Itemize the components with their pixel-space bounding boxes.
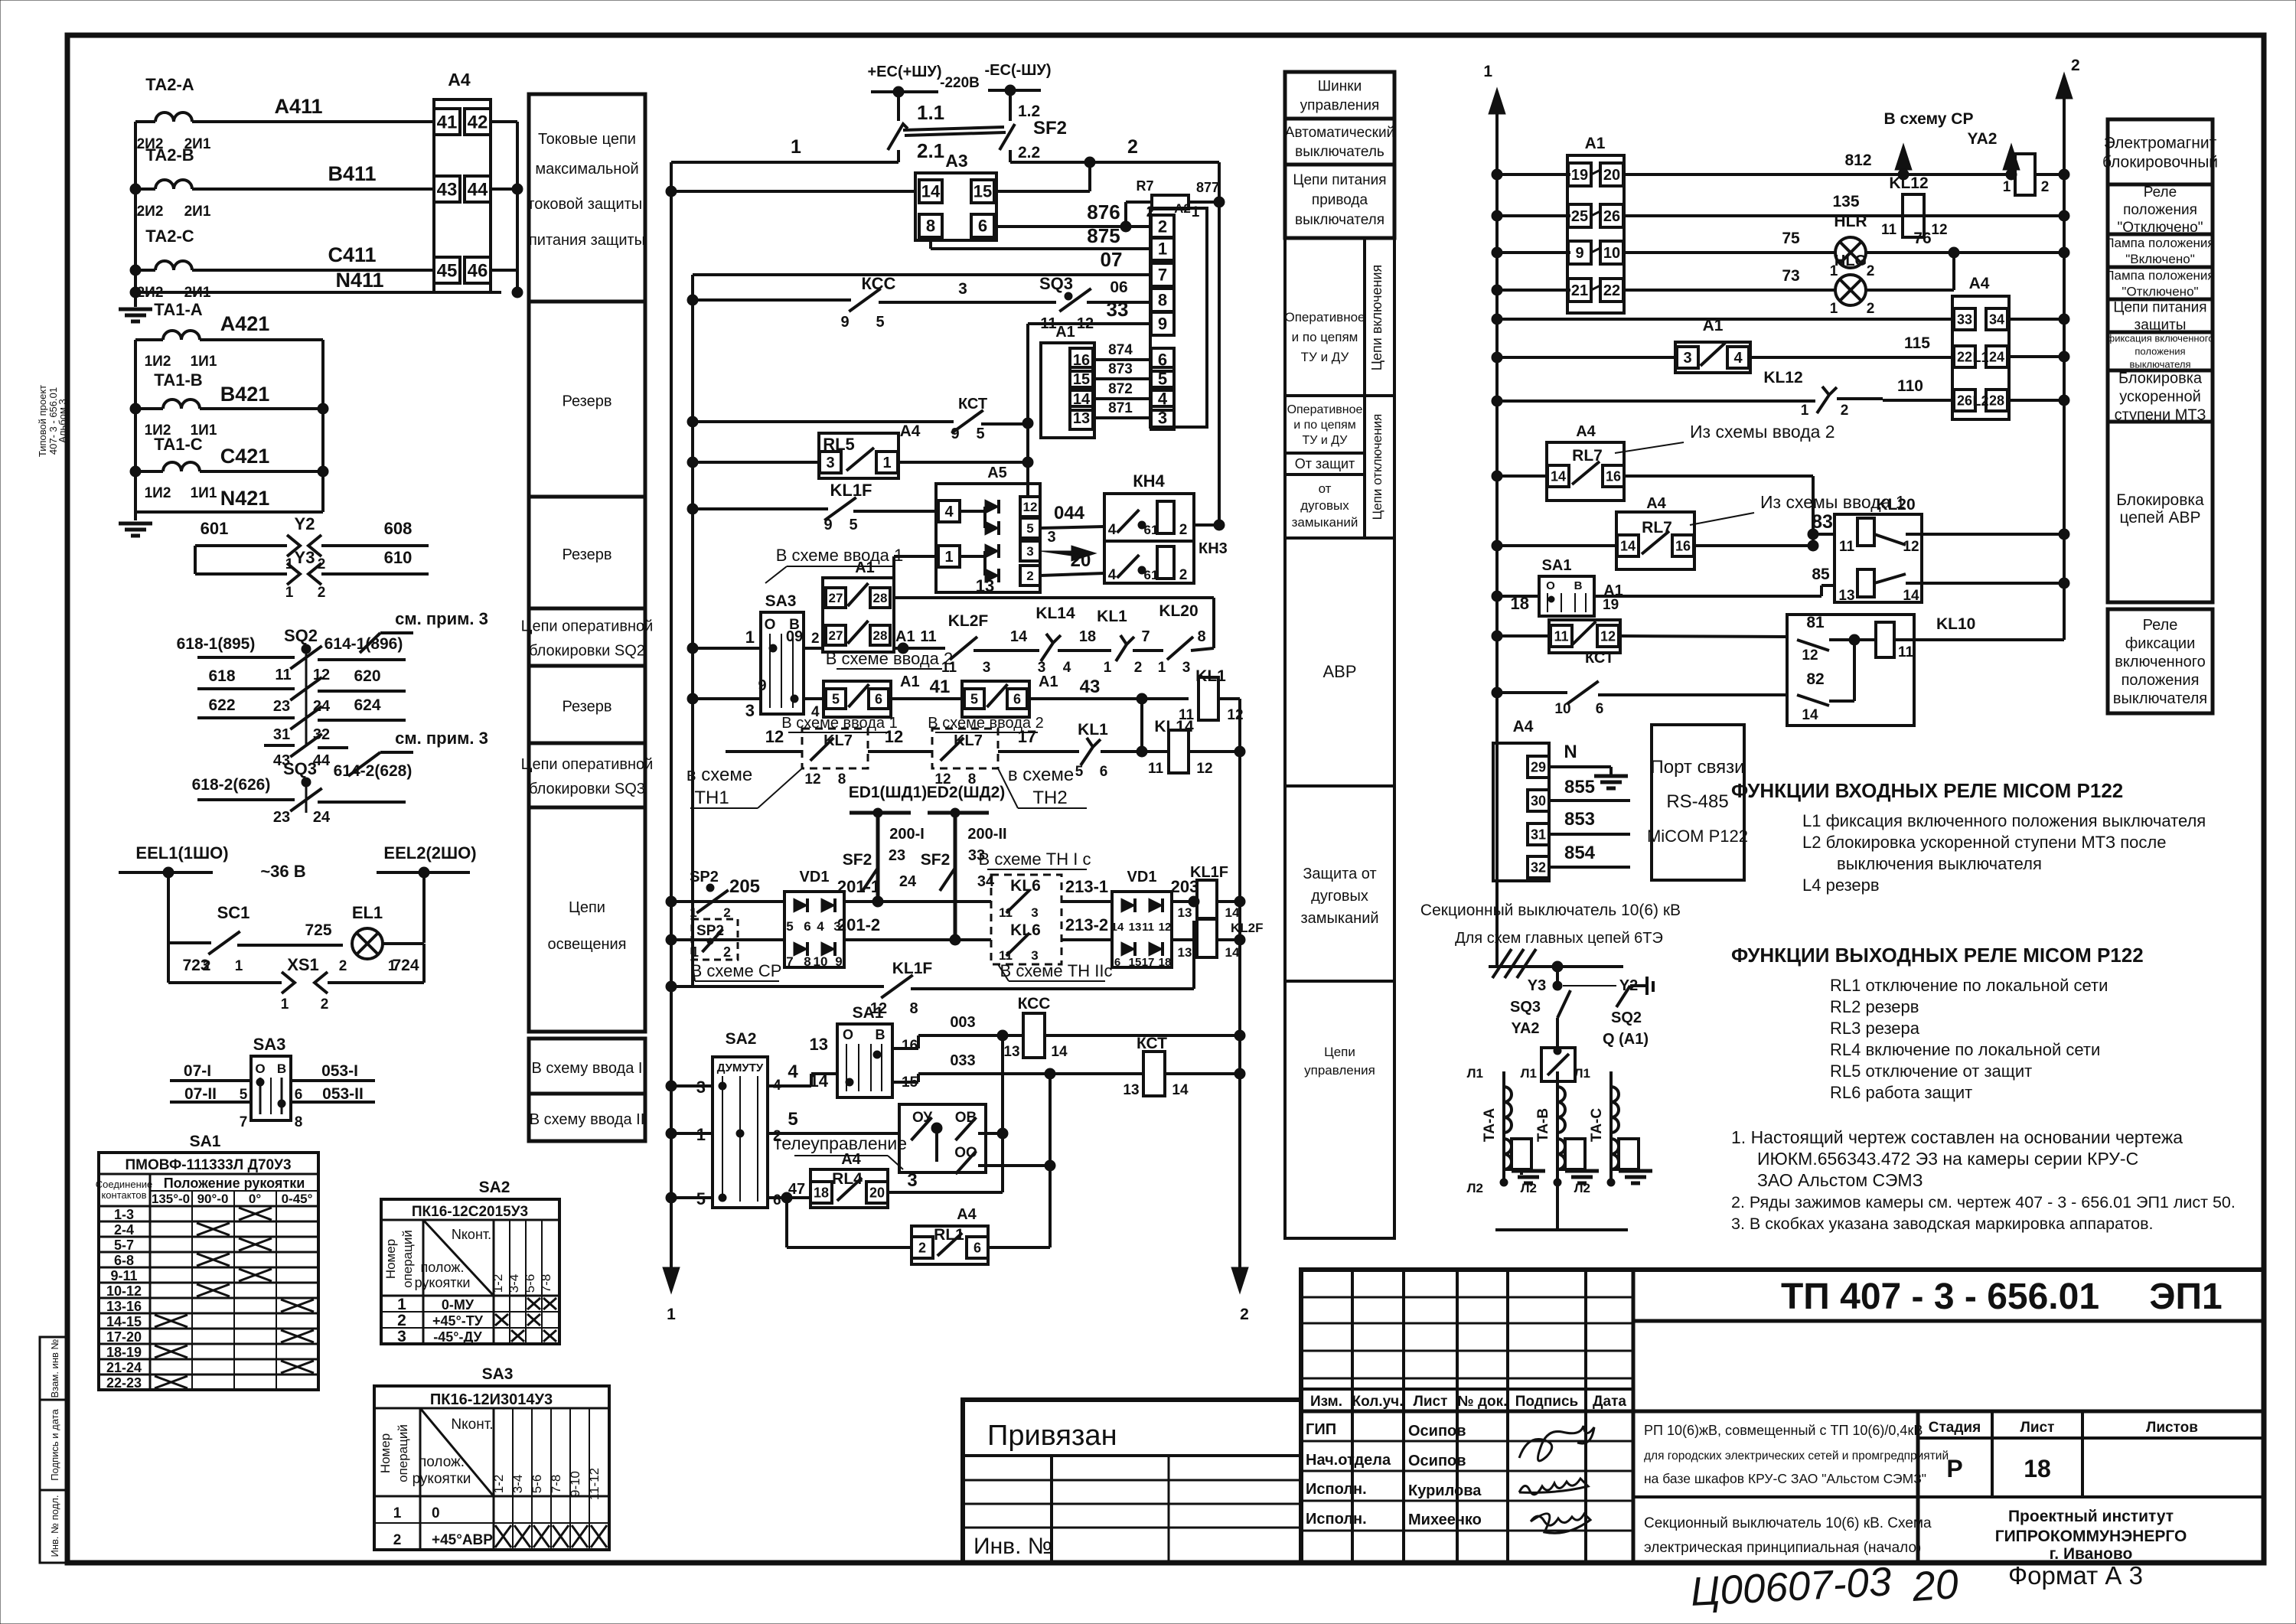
svg-text:41: 41 xyxy=(437,112,458,132)
wire 033 row xyxy=(811,1072,837,1075)
svg-text:11: 11 xyxy=(1142,921,1154,934)
svg-text:8: 8 xyxy=(1197,628,1205,645)
svg-text:17: 17 xyxy=(1018,727,1036,746)
svg-text:1: 1 xyxy=(1104,660,1112,676)
svg-text:2: 2 xyxy=(1841,403,1849,419)
svg-text:привода: привода xyxy=(1312,192,1368,208)
svg-text:Цепи оперативной: Цепи оперативной xyxy=(521,756,654,773)
svg-text:ТА2-В: ТА2-В xyxy=(145,145,194,165)
svg-text:управления: управления xyxy=(1300,98,1380,114)
svg-text:2: 2 xyxy=(1867,263,1875,279)
svg-text:13-16: 13-16 xyxy=(106,1299,142,1314)
svg-text:рукоятки: рукоятки xyxy=(413,1471,471,1487)
svg-text:SQ2: SQ2 xyxy=(284,626,318,645)
svg-text:13: 13 xyxy=(1073,410,1090,427)
svg-text:12: 12 xyxy=(885,727,903,746)
svg-text:Q (А1): Q (А1) xyxy=(1603,1031,1649,1048)
wire 203 xyxy=(1172,900,1197,903)
svg-text:операций: операций xyxy=(400,1230,415,1288)
contact A1 5-6 (2) xyxy=(962,681,1029,717)
svg-text:3: 3 xyxy=(1182,660,1191,676)
gost left column boxes xyxy=(40,1337,67,1400)
svg-text:KL7: KL7 xyxy=(823,732,853,749)
svg-text:0-МУ: 0-МУ xyxy=(442,1297,475,1313)
svg-text:выключателя: выключателя xyxy=(2129,359,2190,370)
svg-text:В схеме ввода 1: В схеме ввода 1 xyxy=(776,546,904,565)
wire row 25-26 xyxy=(1492,210,1502,221)
svg-text:SQ3: SQ3 xyxy=(1039,274,1073,293)
contact A1 5-6 (1) xyxy=(823,681,891,717)
communication port box RS-485 xyxy=(1652,725,1744,880)
label box from protections xyxy=(1285,453,1365,474)
svg-text:11: 11 xyxy=(1554,628,1568,644)
svg-text:28: 28 xyxy=(1989,393,2004,408)
svg-text:RL6 работа защит: RL6 работа защит xyxy=(1830,1083,1972,1102)
svg-text:3: 3 xyxy=(1047,529,1055,546)
svg-text:2: 2 xyxy=(1240,1306,1249,1323)
svg-text:Цепи питания: Цепи питания xyxy=(2113,300,2206,316)
svg-text:Подпись и дата: Подпись и дата xyxy=(49,1408,60,1480)
svg-text:ТА1-С: ТА1-С xyxy=(154,435,203,454)
svg-text:14: 14 xyxy=(1903,588,1919,604)
svg-text:26: 26 xyxy=(1603,208,1620,225)
svg-text:2: 2 xyxy=(1127,136,1138,158)
svg-text:26: 26 xyxy=(1957,393,1972,408)
label box closing circuits (rotated) xyxy=(1365,238,1394,396)
svg-text:15: 15 xyxy=(1129,956,1142,969)
svg-text:16: 16 xyxy=(1675,538,1691,553)
svg-text:8: 8 xyxy=(926,217,935,236)
svg-text:для городских электрических се: для городских электрических сетей и пром… xyxy=(1644,1450,1949,1463)
svg-text:5-6: 5-6 xyxy=(530,1475,544,1494)
middle right bus lower xyxy=(1238,699,1241,1268)
svg-text:618-2(626): 618-2(626) xyxy=(192,776,271,794)
svg-text:11: 11 xyxy=(1898,644,1914,660)
svg-text:19: 19 xyxy=(1571,167,1588,184)
svg-text:ТУ и ДУ: ТУ и ДУ xyxy=(1301,350,1349,364)
svg-text:85: 85 xyxy=(1812,566,1830,583)
svg-text:Секционный выключатель 10(6) к: Секционный выключатель 10(6) кВ xyxy=(1420,902,1681,919)
svg-text:ИЮКМ.656343.472 Э3 на камеры с: ИЮКМ.656343.472 Э3 на камеры серии КРУ-С xyxy=(1757,1149,2138,1169)
svg-text:6: 6 xyxy=(1114,956,1120,969)
svg-text:42: 42 xyxy=(468,112,488,132)
svg-text:213-2: 213-2 xyxy=(1065,915,1108,934)
wire row 913 xyxy=(804,697,823,700)
svg-text:44: 44 xyxy=(468,179,488,200)
arrow to SR scheme 2 xyxy=(2010,150,2013,174)
svg-text:Секционный выключатель 10(6) к: Секционный выключатель 10(6) кВ. Схема xyxy=(1644,1515,1932,1531)
svg-text:Для схем главных цепей 6ТЭ: Для схем главных цепей 6ТЭ xyxy=(1455,930,1663,947)
svg-text:L2 блокировка ускоренной ступе: L2 блокировка ускоренной ступени МТЗ пос… xyxy=(1802,833,2166,852)
svg-text:ЭП1: ЭП1 xyxy=(2149,1277,2222,1317)
svg-text:EL1: EL1 xyxy=(352,903,383,922)
svg-text:"Включено": "Включено" xyxy=(2125,252,2195,266)
svg-text:А4: А4 xyxy=(900,422,921,440)
svg-text:RL4: RL4 xyxy=(832,1170,863,1188)
svg-text:В схеме ТН I с: В схеме ТН I с xyxy=(979,850,1091,869)
svg-text:31: 31 xyxy=(1531,827,1546,842)
svg-text:81: 81 xyxy=(1806,614,1825,631)
wire net 1 xyxy=(671,161,899,164)
svg-text:28: 28 xyxy=(873,628,888,643)
svg-text:РП 10(6)жВ, совмещенный с ТП 1: РП 10(6)жВ, совмещенный с ТП 10(6)/0,4кВ xyxy=(1644,1423,1923,1438)
wire row 201-1 xyxy=(666,896,677,907)
svg-text:22: 22 xyxy=(1603,282,1620,299)
svg-text:О: О xyxy=(765,617,776,633)
svg-text:L4 резерв: L4 резерв xyxy=(1802,876,1880,895)
bus 2 right section arrow xyxy=(2056,73,2073,99)
svg-text:Токовые цепи: Токовые цепи xyxy=(538,131,636,148)
svg-text:205: 205 xyxy=(729,876,760,897)
svg-text:4: 4 xyxy=(1063,660,1071,676)
ground TA2 xyxy=(119,308,152,311)
svg-text:16: 16 xyxy=(902,1038,918,1054)
svg-text:ТА-В: ТА-В xyxy=(1535,1108,1551,1142)
svg-text:22: 22 xyxy=(1957,349,1972,364)
svg-text:N: N xyxy=(1564,742,1577,762)
svg-text:О: О xyxy=(1546,579,1555,592)
svg-text:9: 9 xyxy=(823,517,832,533)
svg-text:201-1: 201-1 xyxy=(837,877,880,896)
svg-text:Формат А 3: Формат А 3 xyxy=(2008,1561,2143,1590)
svg-text:14: 14 xyxy=(1551,468,1566,484)
svg-text:А1: А1 xyxy=(900,673,920,690)
svg-text:14: 14 xyxy=(1225,945,1240,960)
svg-text:ДУМУТУ: ДУМУТУ xyxy=(717,1061,764,1075)
svg-text:С411: С411 xyxy=(328,243,376,266)
A4 right bus wire xyxy=(491,120,517,123)
svg-text:В: В xyxy=(1574,579,1583,592)
svg-text:Шинки: Шинки xyxy=(1318,79,1362,95)
svg-text:853: 853 xyxy=(1564,809,1595,830)
title block table xyxy=(1301,1270,2264,1563)
svg-text:25: 25 xyxy=(1571,208,1588,225)
svg-text:11: 11 xyxy=(1839,539,1855,555)
svg-text:610: 610 xyxy=(384,548,413,567)
wires 874-871 xyxy=(1094,358,1150,361)
svg-text:цепей АВР: цепей АВР xyxy=(2119,509,2200,527)
svg-text:полож.: полож. xyxy=(419,1454,465,1470)
svg-text:выключателя: выключателя xyxy=(1295,212,1384,228)
svg-text:А1: А1 xyxy=(1703,317,1724,334)
svg-text:30: 30 xyxy=(1531,793,1546,808)
svg-text:VD1: VD1 xyxy=(1127,869,1157,885)
svg-text:в схеме: в схеме xyxy=(1008,765,1074,785)
svg-text:624: 624 xyxy=(354,696,380,714)
svg-text:Изм.: Изм. xyxy=(1310,1394,1342,1410)
svg-text:Альбом 3: Альбом 3 xyxy=(57,399,68,442)
svg-text:Цепи оперативной: Цепи оперативной xyxy=(521,618,654,635)
svg-text:EEL2(2ШО): EEL2(2ШО) xyxy=(383,843,476,863)
svg-text:83: 83 xyxy=(1812,511,1833,533)
svg-text:3: 3 xyxy=(1683,350,1691,367)
svg-text:5: 5 xyxy=(786,919,793,934)
title project description xyxy=(1916,1411,1920,1563)
svg-text:ТА-А: ТА-А xyxy=(1482,1108,1498,1142)
wire 876 xyxy=(996,225,1150,228)
svg-text:телеуправление: телеуправление xyxy=(774,1133,907,1153)
svg-text:12: 12 xyxy=(1903,539,1919,555)
svg-text:6: 6 xyxy=(804,919,810,934)
svg-text:KL20: KL20 xyxy=(1159,602,1198,620)
wire Y2-Y3 link xyxy=(194,546,197,574)
wire row 9-10 HLR xyxy=(1492,247,1502,258)
svg-text:ПК16-12И3014У3: ПК16-12И3014У3 xyxy=(430,1391,553,1408)
svg-text:ED1(ШД1): ED1(ШД1) xyxy=(849,784,928,801)
svg-text:RL3 резера: RL3 резера xyxy=(1830,1019,1920,1038)
svg-text:управления: управления xyxy=(1304,1063,1375,1078)
svg-text:213-1: 213-1 xyxy=(1065,877,1108,896)
svg-text:YA2: YA2 xyxy=(1511,1020,1539,1037)
wire 07 xyxy=(693,273,1150,276)
svg-text:освещения: освещения xyxy=(547,936,626,953)
svg-text:8: 8 xyxy=(1158,291,1167,310)
svg-text:5: 5 xyxy=(240,1087,248,1103)
svg-text:Резерв: Резерв xyxy=(563,393,612,410)
svg-text:5: 5 xyxy=(976,426,984,442)
svg-text:ОВ: ОВ xyxy=(955,1110,977,1126)
wire 20 xyxy=(1040,573,1104,576)
svg-text:873: 873 xyxy=(1108,361,1133,377)
svg-text:SC1: SC1 xyxy=(217,903,250,922)
svg-text:KL1: KL1 xyxy=(1097,608,1127,625)
svg-text:А4: А4 xyxy=(957,1206,977,1223)
svg-text:А4: А4 xyxy=(1969,275,1990,292)
svg-text:Осипов: Осипов xyxy=(1408,1423,1466,1440)
svg-text:4: 4 xyxy=(788,1061,798,1082)
svg-text:Инв. №: Инв. № xyxy=(974,1534,1052,1559)
svg-text:11: 11 xyxy=(1148,761,1164,777)
svg-text:В: В xyxy=(876,1027,885,1042)
svg-text:12: 12 xyxy=(1802,647,1818,664)
wire row 417 xyxy=(1492,314,1502,324)
vertical 1372 xyxy=(1049,1074,1052,1247)
svg-text:Листов: Листов xyxy=(2146,1420,2198,1436)
svg-text:23: 23 xyxy=(273,809,290,826)
svg-text:622: 622 xyxy=(208,696,235,714)
svg-text:SF2: SF2 xyxy=(921,851,951,869)
svg-text:-220В: -220В xyxy=(940,75,980,91)
svg-text:8: 8 xyxy=(804,954,810,969)
svg-text:MiCOM P122: MiCOM P122 xyxy=(1647,827,1748,846)
wire 201-2 out xyxy=(844,938,991,941)
svg-text:выключателя: выключателя xyxy=(2113,690,2207,707)
svg-text:4: 4 xyxy=(944,504,954,520)
svg-text:блокировки SQ2: блокировки SQ2 xyxy=(529,643,645,660)
wire N to ground xyxy=(1549,765,1611,768)
svg-text:KL2F: KL2F xyxy=(1231,921,1264,935)
svg-text:0°: 0° xyxy=(249,1192,261,1206)
TA2 left bus xyxy=(134,122,137,307)
svg-text:Цепи включения: Цепи включения xyxy=(1369,265,1384,371)
svg-text:Блокировка: Блокировка xyxy=(2118,370,2203,387)
svg-text:+45°-ТУ: +45°-ТУ xyxy=(432,1313,484,1329)
svg-text:Nконт.: Nконт. xyxy=(451,1417,493,1433)
svg-text:1: 1 xyxy=(2003,179,2011,195)
svg-text:и по цепям: и по цепям xyxy=(1293,419,1356,432)
svg-text:044: 044 xyxy=(1054,503,1085,523)
svg-text:14: 14 xyxy=(1051,1044,1068,1060)
svg-text:43: 43 xyxy=(1080,677,1101,697)
svg-text:2: 2 xyxy=(1179,522,1188,538)
svg-text:+ЕС(+ШУ): +ЕС(+ШУ) xyxy=(867,64,941,80)
wire 044 xyxy=(1040,527,1104,528)
wire 201-1 out xyxy=(844,900,991,903)
svg-text:2: 2 xyxy=(1179,567,1188,583)
svg-text:контактов: контактов xyxy=(101,1189,146,1201)
svg-text:21: 21 xyxy=(1571,282,1588,299)
wire 41 xyxy=(891,697,962,700)
svg-text:Л2: Л2 xyxy=(1574,1181,1590,1195)
svg-text:6: 6 xyxy=(1596,701,1604,717)
svg-text:ТА1-А: ТА1-А xyxy=(154,300,203,319)
svg-text:2: 2 xyxy=(339,958,347,974)
svg-text:2: 2 xyxy=(397,1312,406,1329)
svg-text:В: В xyxy=(277,1061,286,1076)
svg-text:ТА2-С: ТА2-С xyxy=(145,227,194,246)
svg-text:7: 7 xyxy=(1158,266,1167,285)
svg-text:9: 9 xyxy=(1158,315,1167,334)
svg-text:6: 6 xyxy=(974,1240,981,1255)
svg-text:в схеме: в схеме xyxy=(687,765,752,785)
svg-text:34: 34 xyxy=(1989,311,2004,327)
remote control box OU OV OO xyxy=(899,1104,986,1172)
svg-text:ТН1: ТН1 xyxy=(694,788,729,808)
svg-text:1: 1 xyxy=(1158,660,1166,676)
svg-text:90°-0: 90°-0 xyxy=(197,1192,229,1206)
svg-text:24: 24 xyxy=(1989,349,2004,364)
svg-text:82: 82 xyxy=(1806,670,1824,688)
svg-text:877: 877 xyxy=(1196,180,1219,195)
svg-text:13: 13 xyxy=(976,576,994,595)
wire 855 xyxy=(1549,799,1630,802)
title stage table xyxy=(1991,1411,1994,1497)
svg-text:2И2: 2И2 xyxy=(137,204,164,220)
wire B421 xyxy=(135,407,163,410)
svg-text:14: 14 xyxy=(1010,628,1028,645)
svg-text:2.2: 2.2 xyxy=(1018,144,1040,161)
wire 213-2 xyxy=(1062,938,1112,941)
svg-text:О: О xyxy=(255,1061,265,1076)
svg-text:1: 1 xyxy=(235,958,243,974)
relay contact KL7 (TH1) dashed xyxy=(802,729,868,768)
SA2 wires to bus xyxy=(666,1081,677,1091)
svg-text:723: 723 xyxy=(182,957,209,974)
svg-text:6: 6 xyxy=(295,1087,303,1103)
left bus x905 xyxy=(691,275,694,986)
svg-text:20: 20 xyxy=(1910,1561,1960,1610)
title block signature rows xyxy=(1301,1440,1633,1443)
svg-text:SA2: SA2 xyxy=(479,1179,510,1196)
svg-text:А1: А1 xyxy=(895,628,915,645)
label box operational TU DU (opening) xyxy=(1285,396,1365,453)
svg-text:замыканий: замыканий xyxy=(1292,515,1358,530)
svg-text:Лист: Лист xyxy=(1414,1394,1448,1410)
svg-text:SF2: SF2 xyxy=(1033,118,1067,139)
svg-text:11: 11 xyxy=(1881,222,1897,238)
svg-text:876: 876 xyxy=(1087,201,1120,223)
wire N411 xyxy=(135,291,501,294)
wire C411 xyxy=(135,269,155,272)
svg-text:10-12: 10-12 xyxy=(106,1283,142,1299)
svg-text:+45°АВР: +45°АВР xyxy=(432,1532,493,1548)
svg-text:Соединение: Соединение xyxy=(96,1179,153,1190)
svg-text:Л1: Л1 xyxy=(1467,1066,1483,1081)
svg-text:А4: А4 xyxy=(841,1151,861,1168)
svg-text:2: 2 xyxy=(918,1240,926,1255)
svg-text:ТП 407 - 3 - 656.01: ТП 407 - 3 - 656.01 xyxy=(1781,1277,2099,1317)
svg-text:ТА1-В: ТА1-В xyxy=(154,370,202,390)
svg-text:614-1(896): 614-1(896) xyxy=(325,635,403,653)
wire 853 xyxy=(1549,833,1630,836)
svg-text:SA3: SA3 xyxy=(482,1365,514,1383)
svg-text:053-II: 053-II xyxy=(322,1085,364,1103)
svg-text:07-II: 07-II xyxy=(184,1085,217,1103)
svg-text:20: 20 xyxy=(1071,550,1091,571)
svg-text:608: 608 xyxy=(384,519,413,538)
svg-text:13: 13 xyxy=(1003,1044,1019,1060)
svg-text:14: 14 xyxy=(1802,707,1818,723)
svg-text:Проектный институт: Проектный институт xyxy=(2008,1508,2174,1525)
svg-text:24: 24 xyxy=(899,873,917,890)
svg-text:1: 1 xyxy=(791,136,801,158)
svg-text:22-23: 22-23 xyxy=(106,1375,142,1391)
wire B411 xyxy=(135,188,155,191)
svg-text:2-4: 2-4 xyxy=(114,1222,134,1238)
svg-text:053-I: 053-I xyxy=(321,1062,358,1080)
svg-text:75: 75 xyxy=(1782,230,1800,247)
svg-text:18-19: 18-19 xyxy=(106,1345,142,1360)
arrow to SR scheme 1 xyxy=(1902,150,1905,174)
label column: control bus circuits xyxy=(1285,72,1394,119)
svg-text:201-2: 201-2 xyxy=(837,915,880,934)
wire row 19-20 xyxy=(1492,169,1502,180)
svg-text:620: 620 xyxy=(354,667,380,685)
svg-text:7: 7 xyxy=(1141,628,1150,645)
svg-text:1: 1 xyxy=(1801,403,1809,419)
svg-text:1И1: 1И1 xyxy=(191,485,217,501)
svg-text:А4: А4 xyxy=(1576,423,1596,440)
svg-text:1. Настоящий чертеж составлен: 1. Настоящий чертеж составлен на основан… xyxy=(1731,1127,2183,1147)
svg-text:ED2(ШД2): ED2(ШД2) xyxy=(927,784,1006,801)
ground TA1 xyxy=(119,522,152,526)
svg-text:614-2(628): 614-2(628) xyxy=(334,762,413,780)
svg-text:11: 11 xyxy=(275,667,291,683)
svg-text:601: 601 xyxy=(201,519,229,538)
svg-text:29: 29 xyxy=(1531,759,1546,774)
svg-text:~36 В: ~36 В xyxy=(260,862,305,881)
svg-text:Цепи питания: Цепи питания xyxy=(1293,172,1386,188)
svg-text:ПК16-12С2015У3: ПК16-12С2015У3 xyxy=(412,1204,528,1220)
svg-text:А4: А4 xyxy=(1646,495,1666,512)
svg-text:9-11: 9-11 xyxy=(110,1268,137,1283)
TA bottom line xyxy=(1495,1228,1628,1231)
svg-text:8: 8 xyxy=(909,1000,918,1017)
svg-text:6: 6 xyxy=(773,1192,781,1208)
wire row 21-22 HLG xyxy=(1492,285,1502,295)
svg-text:KL12: KL12 xyxy=(1763,369,1802,386)
svg-text:блокировки SQ3: блокировки SQ3 xyxy=(529,781,645,797)
svg-text:18: 18 xyxy=(1079,628,1096,645)
svg-text:5: 5 xyxy=(788,1109,797,1130)
svg-text:RL4 включение по локальной сет: RL4 включение по локальной сети xyxy=(1830,1040,2100,1059)
svg-text:В411: В411 xyxy=(328,162,376,185)
wire 43 xyxy=(1029,697,1189,700)
svg-text:5: 5 xyxy=(876,314,884,331)
svg-text:В421: В421 xyxy=(220,383,270,406)
svg-text:L1: L1 xyxy=(1972,350,1988,365)
svg-text:Блокировка: Блокировка xyxy=(2116,491,2204,509)
